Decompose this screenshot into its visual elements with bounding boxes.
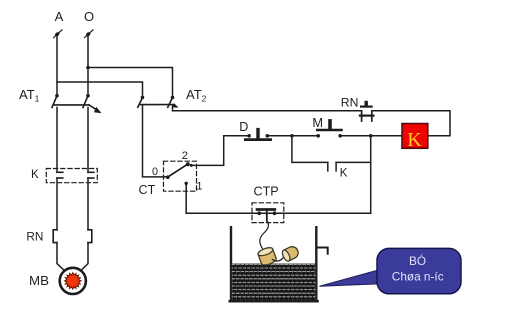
wire AT1 right pole down [87,108,89,173]
svg-text:1: 1 [196,180,202,192]
wire O to AT2 right pole [88,68,173,96]
switch AT2 [138,96,179,108]
svg-text:K: K [31,169,39,181]
svg-text:0: 0 [152,166,158,178]
selector switch CT [166,162,190,185]
wire RN to motor left [57,243,66,273]
relay contact RN (NC) top right [360,103,374,122]
wire CT pos2 to D [191,136,249,166]
wire K contact to RN element right [87,178,89,230]
wire M to K coil [340,135,402,137]
coil K red box [402,124,428,152]
wire AT2 right pole to RN contact [173,105,362,111]
tank left wall [230,227,232,301]
node junction dot O [86,66,90,70]
contactor K main contact pole 2 [88,172,94,178]
node junction dot D-M branch [290,134,294,138]
wire bottom rail [186,212,371,214]
svg-text:K: K [340,168,348,180]
wire D to M [267,135,318,137]
selector CT dashed box [164,161,197,191]
contactor K dashed box [46,169,97,183]
svg-text:D: D [239,120,248,134]
svg-text:RN: RN [26,230,43,244]
svg-text:K: K [407,129,422,151]
water (hatched liquid) [232,264,315,300]
CTP dashed box [252,203,284,223]
motor MB [60,268,86,294]
callout bubble [377,248,461,293]
wire CT pos1 down to bottom rail [185,183,187,213]
svg-text:2: 2 [182,150,188,162]
svg-text:CT: CT [139,183,156,197]
svg-text:BÓ: BÓ [409,254,426,268]
float 2 [281,245,300,263]
callout tail [320,269,382,286]
tank bottom [230,300,318,303]
wire RN contact to K coil right [372,111,450,136]
wire K aux to right vertical [336,161,371,163]
contactor K main contact pole 1 [57,172,63,178]
switch AT1 [52,94,102,113]
node junction dot coil-left [369,134,373,138]
wire RN to motor right [79,243,88,273]
wire squiggle CTP to float [260,221,269,248]
wire phase O top vertical [87,34,89,96]
svg-text:CTP: CTP [254,184,279,198]
wire branch down from D-M junction [292,136,328,163]
wire K contact to RN element left [56,178,58,230]
terminal arrow O [85,30,94,38]
svg-text:Chøa n-íc: Chøa n-íc [392,269,444,283]
svg-text:A: A [55,9,64,24]
wire right vertical to bottom rail [370,136,372,214]
wire AT1 left pole down [56,108,58,173]
svg-text:MB: MB [29,273,49,288]
tank inlet hook [318,248,327,254]
float switch CTP [257,210,276,221]
wire A to AT2 left pole [57,82,143,95]
svg-text:M: M [312,115,323,130]
wire AT2 left pole down to CT [143,105,167,177]
node CT pos2 terminal dot [190,164,193,167]
tank right wall [315,227,317,301]
pushbutton D (NC stop) [245,130,270,140]
svg-text:O: O [84,9,94,24]
wire phase A top vertical [56,34,58,96]
terminal arrow A [54,30,63,38]
float 1 [257,246,277,266]
auxiliary contact K (NO) [328,162,336,171]
pushbutton M (NO start) [316,121,342,138]
thermal relay RN element right [88,230,92,243]
thermal relay RN element left [53,230,57,243]
float link wire [273,257,284,261]
svg-text:RN: RN [341,96,359,110]
